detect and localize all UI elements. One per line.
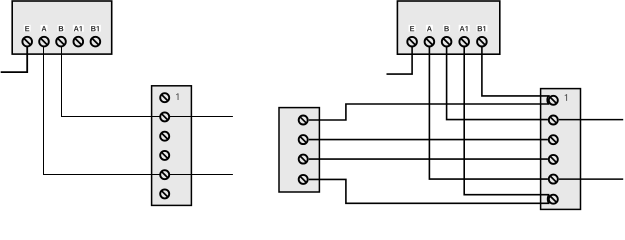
label A1 (TB2) [459,25,470,32]
label B1 (TB1) [90,25,101,32]
wire X3 pin2 to right edge [559,119,623,121]
wire TB1-A to X1 pin5 [44,46,161,174]
pin X2-3 [299,155,308,164]
pin X1-5 [160,170,169,179]
pin X3-5 [549,175,558,184]
label E (TB2) [409,25,416,32]
label B1 (TB2) [476,25,487,32]
connector X2 (4-pin strip) [279,108,319,192]
terminal TB2-B1 [477,37,487,47]
connector X1 (6-pin strip) [152,86,192,206]
wire X2 pin1 to X3 pin1 (jog up) [309,104,550,120]
wire fork at X3 pin1 [547,96,549,104]
wire TB1-B to X1 pin2 [62,46,161,116]
pin X3-2 [549,116,558,125]
label B (TB1) [58,25,65,32]
wire fork at X3 pin6 [548,195,550,204]
pin X2-1 [299,116,308,125]
wire X2 pin2 to X3 pin3 [309,139,548,141]
wire X2 pin3 to X3 pin4 [309,158,548,160]
pin X3-4 [549,155,558,164]
pin X1-4 [160,151,169,160]
terminal block TB1 [12,1,112,54]
pin X2-2 [299,135,308,144]
label 1 (X1) [176,93,178,100]
wire TB2-A1 to X3 pin6 [464,47,549,195]
label E (TB1) [24,25,31,32]
pin X1-2 [160,112,169,121]
wire TB2-B to X3 pin2 [447,47,548,120]
wire TB2-E stub [387,47,413,75]
pin X3-1 [549,96,558,105]
terminal TB2-A1 [459,37,469,47]
wire TB2-A to X3 pin5 [429,47,548,180]
label A1 (TB1) [73,25,84,32]
label A (TB1) [41,25,48,32]
pin X3-6 [549,195,558,204]
terminal TB2-A [425,37,435,47]
terminal TB1-E [22,37,32,47]
terminal TB1-B1 [91,37,101,47]
terminal TB1-B [56,37,66,47]
connector X3 (6-pin strip) [541,89,581,210]
wire TB2-B1 to X3 pin1 [482,47,550,96]
terminal block TB2 [397,1,499,54]
label 1 (X3) [565,94,567,101]
pin X1-6 [160,189,169,198]
wire X2 pin4 to X3 pin6 (jog down) [309,179,550,203]
terminal TB1-A [39,37,49,47]
terminal TB2-B [442,37,452,47]
wire X1 pin2 to right [169,116,233,118]
pin X1-3 [160,132,169,141]
wire TB1-E to left edge [1,46,28,72]
label A (TB2) [426,25,433,32]
terminal TB1-A1 [74,37,84,47]
wire X1 pin5 to right [169,174,233,176]
wire X3 pin5 to right edge [559,178,623,180]
pin X3-3 [549,135,558,144]
label B (TB2) [443,25,450,32]
pin X1-1 [160,93,169,102]
pin X2-4 [299,175,308,184]
terminal TB2-E [407,37,417,47]
